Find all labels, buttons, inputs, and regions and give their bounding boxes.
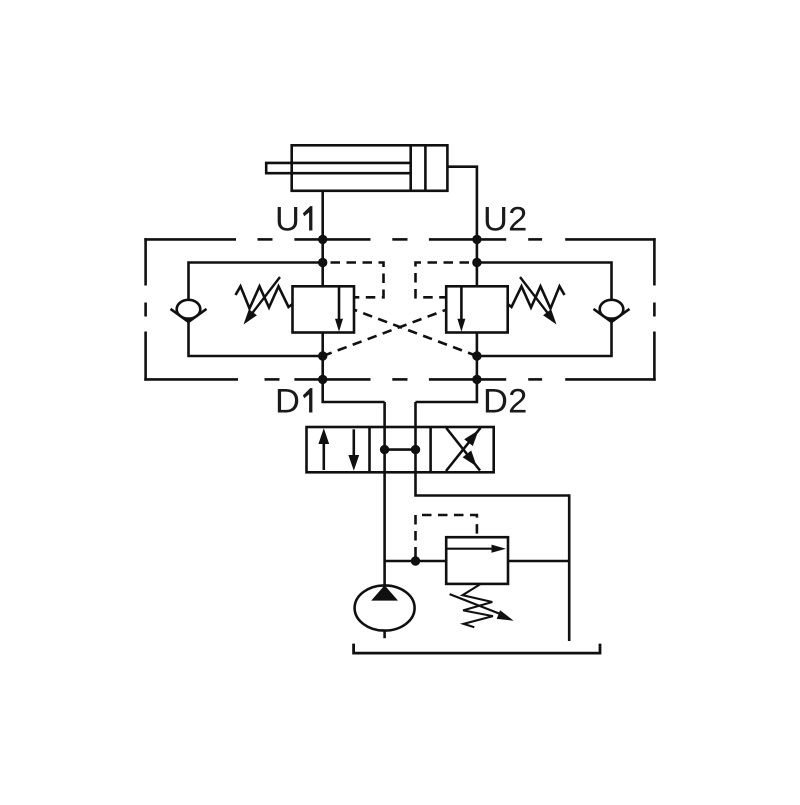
counterbalance valve V1 body [293, 286, 355, 332]
cylinder body [292, 145, 448, 191]
svg-text:D2: D2 [483, 383, 528, 421]
counterbalance valve V2 body [446, 286, 508, 332]
cylinder rod [266, 163, 411, 173]
counterbalance valve V1 flow arrow shaft [338, 286, 341, 320]
relief valve RV adjust arrow [450, 594, 500, 614]
pilot line V1 dashed hook [331, 263, 384, 298]
check valve CV2 circle [600, 300, 624, 319]
right CBV inner envelope box [477, 263, 612, 357]
wire pump to relief tee [385, 560, 447, 563]
node relief pilot tap [411, 556, 420, 565]
relief valve RV body [446, 537, 508, 584]
node U2 [472, 235, 481, 244]
relief valve RV pilot dashed [416, 515, 477, 557]
check valve CV2 seat [594, 309, 630, 322]
counterbalance valve V1 flow arrow head [335, 319, 343, 332]
wire valve port P line down to pump [383, 402, 386, 585]
directional valve divider 2 [429, 427, 432, 472]
relief valve RV outlet wire [508, 560, 569, 563]
svg-text:D: D [275, 383, 300, 421]
check valve CV1 seat [171, 309, 207, 322]
node U1 [318, 235, 327, 244]
outer manifold dashed box top edge [144, 238, 655, 241]
directional valve DV body [307, 427, 494, 472]
wire U2 main line below valve [416, 333, 477, 403]
pilot line V2 dashed hook [416, 263, 470, 298]
counterbalance valve V2 adjust arrow [520, 277, 554, 321]
DV right cell cross arrow 2 [446, 428, 480, 471]
node right lower tap [472, 351, 481, 360]
DV center cell connector bar [385, 448, 416, 451]
wire cylinder rod-end port to U2 [447, 167, 477, 287]
pilot crossover dashed V2 to U1 line [323, 310, 446, 356]
node DV center left [380, 445, 389, 454]
counterbalance valve V2 flow arrow shaft [460, 286, 463, 320]
cylinder piston line 2 [424, 145, 427, 191]
relief valve RV spring [463, 584, 493, 627]
pilot crossover dashed V1 to U2 line [354, 310, 477, 356]
pump P1 outlet triangle [371, 585, 398, 600]
outer manifold dashed box bottom edge [144, 378, 655, 381]
counterbalance valve V1 adjust arrow [246, 277, 280, 321]
node D1 [318, 375, 327, 384]
node D2 [472, 375, 481, 384]
node left lower tap [318, 351, 327, 360]
pump P1 suction stub [383, 631, 386, 639]
counterbalance valve V1 spring [236, 286, 293, 308]
DV left cell up arrow [322, 441, 325, 470]
wire valve port T line to tank [416, 402, 570, 641]
directional valve divider 1 [368, 427, 371, 472]
pump P1 circle [355, 585, 415, 630]
svg-text:U2: U2 [483, 201, 528, 239]
wire U1 main line below valve [323, 333, 385, 403]
outer manifold dashed box right edge [653, 238, 656, 381]
left CBV inner envelope box [189, 263, 323, 357]
tank T1 [354, 644, 600, 654]
wire cylinder cap-end port to U1 [321, 191, 324, 286]
relief valve RV internal arrow [447, 548, 493, 550]
outer manifold dashed box left edge [144, 238, 147, 381]
node right pilot tap [472, 258, 481, 267]
node DV center right [411, 445, 420, 454]
check valve CV1 circle [177, 300, 201, 319]
cylinder piston line 1 [409, 145, 412, 191]
node left pilot tap [318, 258, 327, 267]
counterbalance valve V2 flow arrow head [457, 319, 465, 332]
DV right cell cross arrow 1 [446, 428, 481, 471]
counterbalance valve V2 spring [508, 286, 565, 308]
DV left cell down arrow [352, 429, 355, 458]
svg-text:U: U [275, 201, 300, 239]
